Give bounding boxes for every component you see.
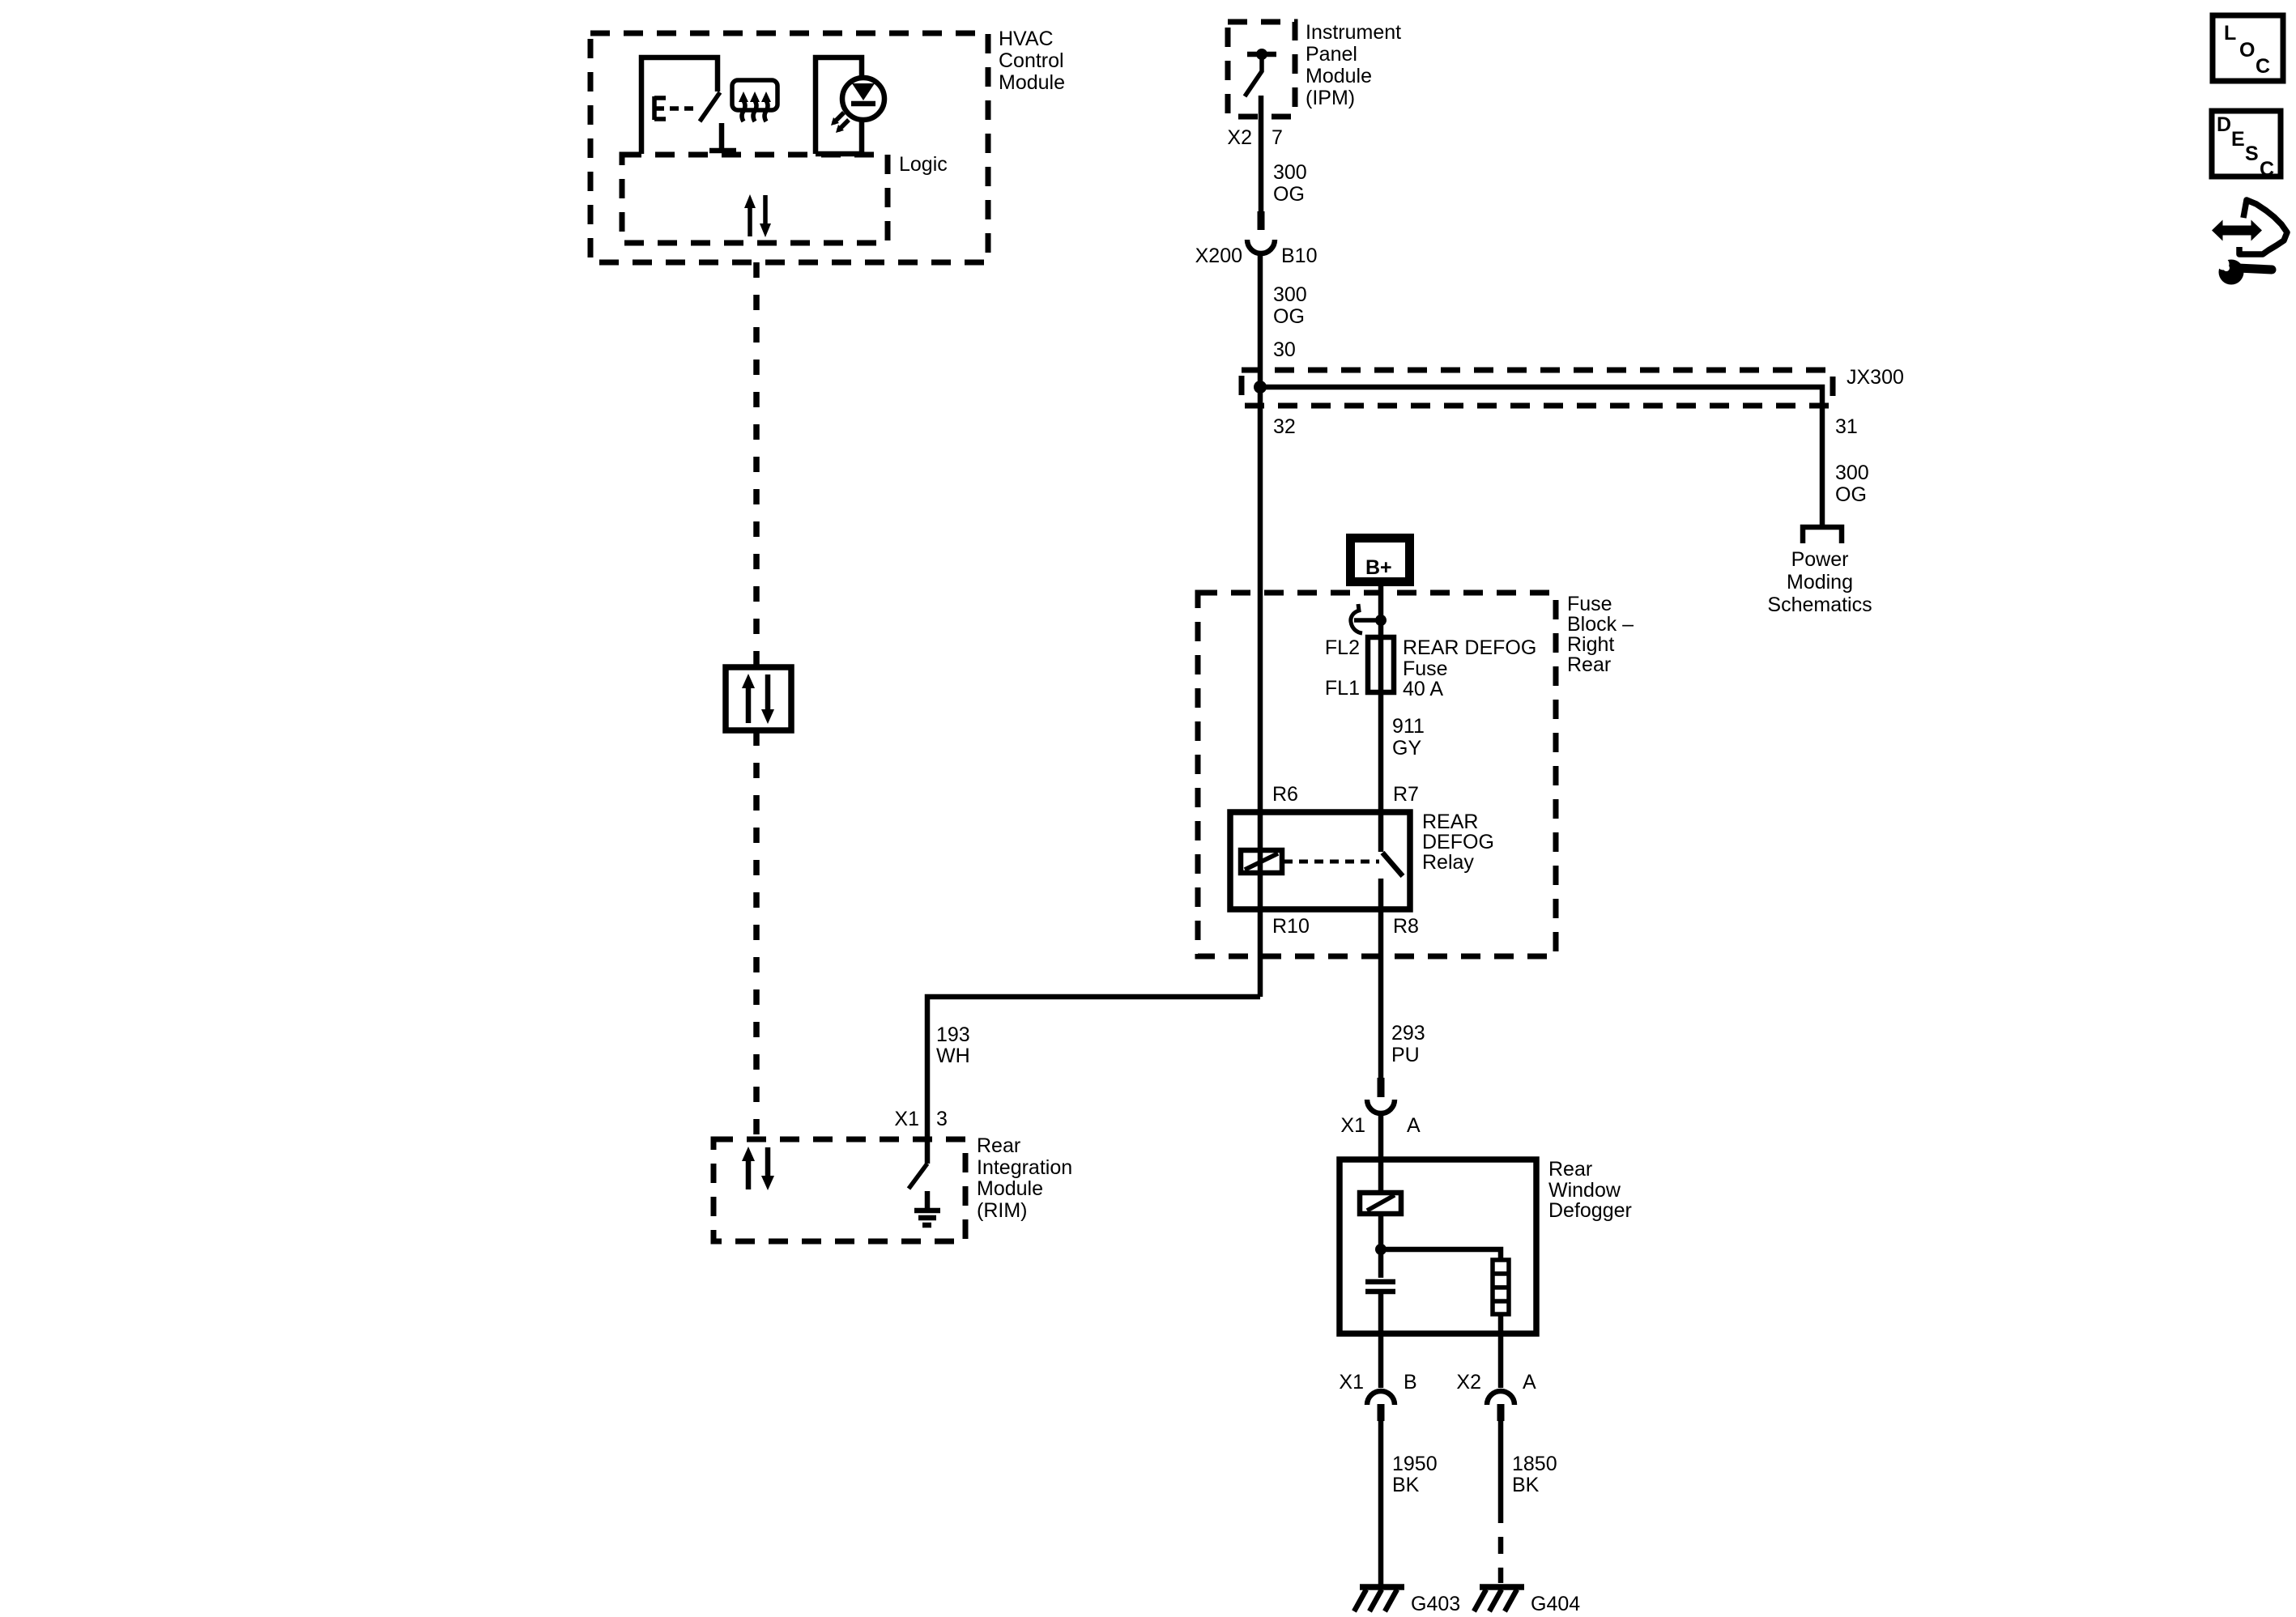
svg-text:Instrument: Instrument [1306,21,1401,44]
wire label 1850 BK [1512,1453,1557,1496]
wire label 911 GY [1392,715,1425,760]
serial data link box [726,667,791,730]
svg-text:E: E [2231,128,2245,151]
node splice junction [1254,381,1267,394]
wire label 293 PU [1391,1022,1425,1066]
Fuse Block Right Rear box [1198,593,1634,956]
svg-text:X2: X2 [1456,1371,1481,1394]
Rear Integration Module (RIM) box [714,1134,1072,1241]
RIM serial data arrows [742,1147,774,1190]
RIM driver switch blade [909,1164,927,1189]
svg-text:Integration: Integration [977,1156,1072,1179]
connector X1 B [1339,1371,1416,1421]
svg-text:Control: Control [999,49,1064,72]
svg-text:Rear: Rear [1567,653,1611,676]
service action hand icon [2212,200,2287,285]
svg-text:R10: R10 [1272,915,1310,938]
serial data dashed wire to RIM [753,730,760,1139]
svg-text:BK: BK [1512,1474,1540,1496]
svg-text:REAR DEFOG: REAR DEFOG [1403,636,1536,659]
svg-text:911: 911 [1392,715,1425,738]
svg-text:C: C [2260,158,2274,181]
Instrument Panel Module (IPM) box [1228,21,1401,117]
svg-text:Module: Module [999,71,1065,94]
svg-text:G404: G404 [1531,1593,1580,1615]
svg-text:R6: R6 [1272,783,1298,806]
svg-text:OG: OG [1835,483,1867,506]
svg-text:FL1: FL1 [1325,677,1360,700]
svg-text:193: 193 [936,1023,970,1046]
wire label 300 OG [1835,462,1869,506]
svg-text:Defogger: Defogger [1548,1199,1632,1222]
IPM driver switch [1245,49,1276,96]
wire relay R8 to defogger [1378,879,1384,1078]
svg-text:DEFOG: DEFOG [1422,831,1494,853]
svg-text:3: 3 [936,1108,948,1130]
REAR DEFOG Relay K1 box [1230,811,1494,909]
svg-text:Schematics: Schematics [1767,594,1872,616]
svg-text:300: 300 [1273,161,1307,184]
svg-text:G403: G403 [1411,1593,1460,1615]
svg-text:R7: R7 [1393,783,1419,806]
svg-text:300: 300 [1273,283,1307,306]
splice pack JX300 box [1242,366,1904,406]
in-line connector X1 A [1340,1078,1421,1137]
serial data dashed wire from HVAC module [753,262,760,667]
svg-text:Logic: Logic [899,153,948,176]
wire connector to defogger [1378,1113,1384,1193]
svg-text:D: D [2217,113,2231,136]
svg-text:B10: B10 [1281,245,1317,267]
svg-text:PU: PU [1391,1044,1420,1066]
ground G403 [1354,1587,1460,1615]
LOC reference icon [2213,15,2283,81]
svg-text:Block –: Block – [1567,613,1634,636]
heater indicator icon [732,80,777,121]
svg-text:300: 300 [1835,462,1869,484]
svg-text:A: A [1523,1371,1536,1394]
svg-text:Panel: Panel [1306,43,1357,66]
ground G404 [1474,1587,1580,1615]
wire relay R10 to RIM [927,997,1260,1164]
DESC reference icon [2212,111,2281,181]
svg-text:B: B [1404,1371,1417,1394]
LED indicator D1 [816,57,884,154]
svg-text:Module: Module [977,1177,1043,1200]
relay actuation dashed link [1284,860,1379,864]
wire sense element to X2 A [1498,1314,1504,1388]
svg-text:Right: Right [1567,633,1614,656]
svg-text:JX300: JX300 [1847,366,1904,389]
svg-text:X1: X1 [894,1108,919,1130]
wire grid to junction [1378,1214,1384,1278]
svg-text:OG: OG [1273,183,1305,206]
svg-text:Rear: Rear [1548,1158,1592,1181]
svg-text:BK: BK [1392,1474,1420,1496]
svg-text:L: L [2224,22,2236,45]
svg-text:1950: 1950 [1392,1453,1438,1475]
off-page reference Power Moding Schematics [1767,527,1872,616]
connector pins X1 3 [894,1108,948,1130]
svg-text:Rear: Rear [977,1134,1020,1157]
fuse FL2 FL1 REAR DEFOG Fuse 40 A [1325,636,1536,700]
svg-text:X1: X1 [1340,1114,1365,1137]
svg-text:Window: Window [1548,1179,1621,1202]
svg-text:FL2: FL2 [1325,636,1360,659]
fusible element hook [1351,604,1387,633]
svg-text:REAR: REAR [1422,811,1478,833]
svg-text:A: A [1407,1114,1421,1137]
wire junction to sense element [1381,1249,1501,1260]
connector pins X2 7 [1227,126,1283,149]
wire X1 B to G403 [1378,1419,1384,1585]
svg-text:Fuse: Fuse [1567,593,1612,615]
capacitor C1 [1365,1282,1395,1291]
svg-text:X2: X2 [1227,126,1252,149]
Logic block inside HVAC module [622,153,948,243]
svg-text:HVAC: HVAC [999,28,1054,50]
svg-text:OG: OG [1273,305,1305,328]
connector X2 A [1456,1371,1536,1421]
Rear Window Defogger box [1340,1158,1632,1334]
svg-text:S: S [2245,143,2259,165]
svg-text:WH: WH [936,1045,970,1067]
svg-text:R8: R8 [1393,915,1419,938]
bus wire to power moding [1260,387,1822,526]
battery feed B+ [1351,538,1410,582]
svg-text:30: 30 [1273,338,1296,361]
svg-text:Module: Module [1306,65,1372,87]
svg-text:1850: 1850 [1512,1453,1557,1475]
main wire from X200 to relay coil [1258,253,1263,997]
svg-text:O: O [2239,39,2255,62]
wire B+ to fuse [1378,586,1384,852]
svg-text:Relay: Relay [1422,851,1474,874]
wire X2 A to G404 dashed [1498,1419,1504,1583]
node defogger junction [1375,1244,1387,1255]
svg-text:(RIM): (RIM) [977,1199,1027,1222]
svg-text:Moding: Moding [1787,571,1853,594]
svg-text:X1: X1 [1339,1371,1364,1394]
svg-text:7: 7 [1272,126,1283,149]
wire label 300 OG [1273,283,1307,328]
relay coil [1241,850,1282,873]
signal ground inside RIM [914,1191,940,1225]
svg-text:X200: X200 [1195,245,1242,267]
svg-text:Power: Power [1791,548,1849,571]
logic serial data arrows [744,194,771,237]
svg-text:Fuse: Fuse [1403,657,1448,680]
wire label 300 OG [1273,161,1307,206]
svg-text:32: 32 [1273,415,1296,438]
svg-text:293: 293 [1391,1022,1425,1045]
svg-text:GY: GY [1392,737,1421,760]
svg-text:B+: B+ [1365,556,1392,579]
svg-text:31: 31 [1835,415,1858,438]
svg-text:40 A: 40 A [1403,678,1443,700]
wire label 1950 BK [1392,1453,1438,1496]
in-line connector X200 B10 [1195,211,1318,267]
rear defog switch S1 inside HVAC module [641,57,736,154]
wire capacitor to X1 B [1378,1291,1384,1388]
svg-text:C: C [2256,55,2270,78]
relay switch blade [1382,853,1403,876]
HVAC Control Module box U1 [590,28,1065,262]
defogger grid element [1360,1193,1401,1214]
wire IPM pin 7 [1259,96,1264,211]
svg-text:(IPM): (IPM) [1306,87,1355,109]
sense resistor element [1493,1260,1509,1314]
wire label 193 WH [936,1023,970,1067]
